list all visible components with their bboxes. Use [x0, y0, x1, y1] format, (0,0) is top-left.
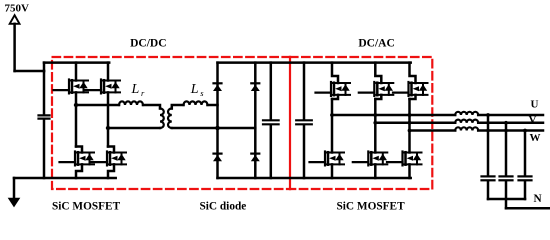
- svg-text:DC/DC: DC/DC: [130, 37, 166, 49]
- wire: rectifier left leg: [216, 63, 219, 178]
- ground: negative terminal arrow (filled, down): [9, 198, 20, 206]
- wire: U capacitor to neutral bus: [487, 181, 490, 199]
- wire: H-bridge bottom rail: [14, 177, 116, 180]
- transistor Q4 (SiC MOSFET, H-bridge bottom-right): [92, 152, 127, 166]
- svg-text:r: r: [141, 88, 145, 98]
- wire: phase V line (inverter to filter): [375, 122, 455, 125]
- transistor Q10 (SiC MOSFET, inverter bottom leg3): [387, 152, 422, 166]
- transistor Q9 (SiC MOSFET, inverter top leg3): [393, 82, 428, 96]
- wire: 750V stem down: [13, 24, 16, 71]
- wire: DC-link bus lower (C1): [270, 125, 273, 178]
- wire: Q9 source step back: [410, 95, 416, 99]
- node V: leg2 output junction: [373, 121, 377, 125]
- inductor L_W (filter): [455, 127, 478, 130]
- node B: leg2 midpoint junction: [106, 126, 110, 130]
- wire: positive input horizontal: [15, 70, 44, 73]
- node: V drop crossing W line: [504, 129, 507, 132]
- svg-text:s: s: [200, 88, 204, 98]
- capacitor C1 plates: [263, 120, 279, 124]
- wire: inverter leg3 midpoint vertical: [408, 99, 411, 153]
- wire: secondary bottom lead to rectifier right leg: [172, 127, 256, 130]
- wire: U capacitor drop: [487, 115, 490, 175]
- wire: Q4 source to bottom rail: [108, 164, 114, 178]
- node: DC bus lower segment: [43, 120, 46, 178]
- wire: V capacitor through neutral bus: [505, 181, 508, 208]
- transistor Q3 (SiC MOSFET, H-bridge top-right): [86, 80, 121, 94]
- node: U drop crossing V line: [486, 121, 489, 124]
- transistor Q8 (SiC MOSFET, inverter bottom leg2): [353, 152, 388, 166]
- wire: phase W line to terminal: [478, 129, 543, 132]
- capacitor C_V plates: [500, 176, 513, 180]
- wire: rectifier/inverter bottom rail: [218, 177, 411, 180]
- node: crossing dot on rectifier left leg: [215, 126, 220, 131]
- node: leg3 crossing V line: [408, 121, 412, 125]
- wire: inverter leg1 drain drop and jog: [332, 63, 338, 83]
- transistor Q5 (SiC MOSFET, inverter top leg1): [316, 82, 351, 96]
- wire: H-bridge leg2 midpoint vertical: [107, 92, 110, 146]
- svg-text:SiC diode: SiC diode: [200, 200, 247, 212]
- svg-text:SiC MOSFET: SiC MOSFET: [337, 200, 406, 212]
- wire: Ls to rectifier left leg: [208, 104, 218, 107]
- transistor Q6 (SiC MOSFET, inverter bottom leg1): [310, 152, 345, 166]
- wire: inverter leg2 drain drop and jog: [375, 63, 381, 83]
- inductor Lr (resonant inductor): [119, 101, 143, 105]
- node: leg3 crossing U line: [408, 113, 412, 117]
- capacitor C_W plates: [519, 176, 532, 180]
- wire: inverter leg2 midpoint vertical: [374, 99, 377, 153]
- inductor L_V (filter): [455, 120, 478, 123]
- node U: leg1 output junction: [330, 113, 334, 117]
- wire: secondary top lead: [172, 105, 184, 109]
- diode D2 (SiC diode, left bottom): [213, 154, 222, 162]
- wire: Q10 source to bottom rail: [408, 164, 411, 178]
- node A: leg1 midpoint junction: [74, 103, 78, 107]
- wire: neutral bus: [488, 198, 525, 201]
- capacitor C_U plates: [482, 176, 495, 180]
- transformer secondary winding: [168, 109, 172, 129]
- wire: H-bridge leg1 drain lead: [75, 63, 78, 81]
- wire: Q7 source step back: [375, 95, 381, 99]
- wire: input riser to top rail: [43, 63, 46, 71]
- wire: rectifier right leg: [254, 63, 257, 178]
- diode D4 (SiC diode, right bottom): [251, 154, 260, 162]
- svg-text:L: L: [131, 82, 140, 97]
- svg-text:750V: 750V: [5, 2, 30, 14]
- wire: primary top lead: [76, 104, 119, 107]
- wire: V capacitor drop: [505, 123, 508, 176]
- svg-text:W: W: [530, 132, 541, 144]
- node: U drop crossing W line: [486, 129, 489, 132]
- wire: rectifier/inverter top rail: [218, 61, 411, 64]
- wire: inverter leg3 drain drop and jog: [410, 63, 416, 83]
- wire: DC-link bus upper (C2): [303, 63, 306, 120]
- svg-text:V: V: [529, 114, 537, 126]
- svg-text:DC/AC: DC/AC: [358, 38, 394, 50]
- wire: Lr to primary winding: [143, 105, 160, 109]
- wire: leg1 bottom jog: [76, 147, 82, 153]
- wire: phase U line (inverter to filter): [332, 114, 455, 117]
- wire: H-bridge leg1 midpoint vertical: [75, 92, 78, 146]
- wire: Q5 source step back: [332, 95, 338, 99]
- wire: DC-link bus upper (C1): [270, 63, 273, 120]
- node W: leg3 output junction: [408, 129, 412, 133]
- transistor Q1 (SiC MOSFET, H-bridge top-left): [54, 80, 89, 94]
- svg-text:SiC MOSFET: SiC MOSFET: [52, 200, 121, 212]
- node: V filter tap: [504, 121, 508, 125]
- wire: H-bridge top rail: [44, 61, 109, 64]
- wire: W capacitor to neutral bus: [524, 181, 527, 199]
- capacitor C2 plates: [296, 120, 312, 124]
- node: U filter tap: [486, 113, 490, 117]
- wire: H-bridge leg2 drain lead: [107, 63, 110, 81]
- wire: Q2 source to bottom rail: [76, 164, 82, 178]
- svg-text:U: U: [531, 99, 539, 111]
- capacitor C_in plates: [39, 115, 50, 118]
- transistor Q7 (SiC MOSFET, inverter top leg2): [359, 82, 394, 96]
- wire: neutral output line N: [506, 207, 550, 210]
- diode D1 (SiC diode, left top): [213, 83, 222, 91]
- wire: inverter leg1 midpoint vertical: [331, 99, 334, 153]
- transformer primary winding: [160, 109, 164, 129]
- wire: phase V line to terminal: [478, 122, 543, 125]
- node: DC bus upper segment: [43, 71, 46, 114]
- ground: negative terminal stem: [13, 178, 16, 199]
- wire: W capacitor drop: [524, 131, 527, 176]
- transistor Q2 (SiC MOSFET, H-bridge bottom-left): [60, 152, 95, 166]
- DCAC red dashed box: [290, 57, 432, 189]
- wire: primary bottom return: [108, 127, 160, 130]
- diode D3 (SiC diode, right top): [251, 83, 260, 91]
- wire: leg2 bottom jog: [108, 147, 114, 153]
- wire: phase U line to terminal: [478, 114, 543, 117]
- svg-text:N: N: [534, 193, 543, 205]
- inductor L_U (filter): [455, 112, 478, 115]
- inductor Ls (series inductor): [184, 101, 208, 105]
- svg-text:L: L: [190, 82, 199, 97]
- wire: phase W line (inverter to filter): [410, 129, 456, 132]
- DCDC red dashed box: [52, 57, 290, 189]
- node: W filter tap: [523, 129, 527, 133]
- red solid divider between boxes: [289, 57, 291, 189]
- wire: Q8 source to bottom rail: [374, 164, 377, 178]
- 750V source arrow (hollow, up): [10, 15, 20, 24]
- node: leg2 crossing U line: [373, 113, 377, 117]
- wire: Q6 source to bottom rail: [331, 164, 334, 178]
- wire: DC-link bus lower (C2): [303, 125, 306, 178]
